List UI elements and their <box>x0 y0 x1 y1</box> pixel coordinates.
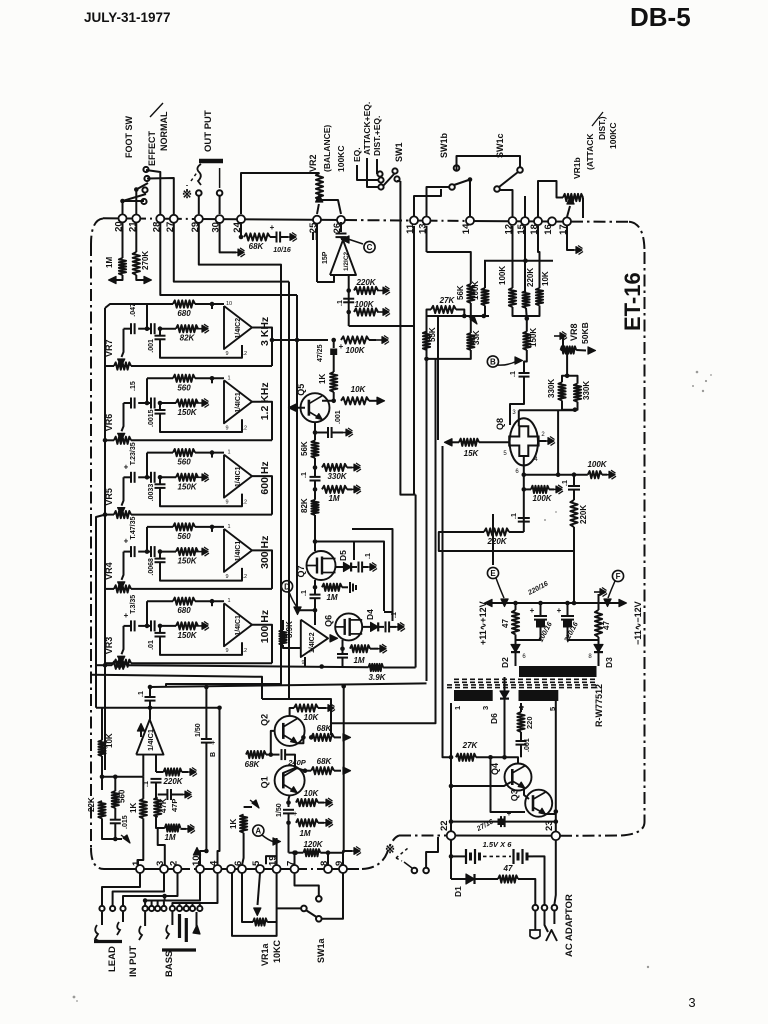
ground (D5) <box>364 566 370 568</box>
svg-text:(BALANCE): (BALANCE) <box>322 125 332 172</box>
top bus line <box>103 217 137 219</box>
pin 5 <box>256 865 264 873</box>
resistor 47 (battery) <box>498 875 518 882</box>
svg-text:.1: .1 <box>391 612 398 618</box>
pin unlabeled <box>227 865 235 873</box>
wire rail to 120K <box>343 686 345 852</box>
svg-text:D1: D1 <box>453 886 463 897</box>
wire pin20 down <box>122 222 124 258</box>
node 1.2 KHz mid1 <box>145 401 150 406</box>
capacitor 1/50 (Q1) <box>283 809 294 811</box>
svg-text:+: + <box>339 342 344 351</box>
wire 15 col down <box>524 226 526 291</box>
svg-text:600 Hz: 600 Hz <box>259 461 271 494</box>
wire 82K down <box>314 515 316 542</box>
wire Q1 emitter <box>289 795 290 807</box>
wire pin25 to op-amp input <box>317 275 334 282</box>
wire 220K v down to rail <box>573 551 575 603</box>
pin 2 <box>174 865 182 873</box>
svg-text:68K: 68K <box>317 757 333 766</box>
svg-text:1M: 1M <box>353 656 364 665</box>
pin 7 <box>291 865 299 873</box>
ground (bank) <box>470 316 477 324</box>
resistor 560 (600 Hz) <box>173 449 195 456</box>
svg-text:12: 12 <box>241 648 247 654</box>
long rail x438 <box>437 316 439 440</box>
svg-text:100K: 100K <box>471 281 480 300</box>
resistor 150K (Q8) <box>526 319 528 332</box>
capacitor 47/25 <box>333 340 335 348</box>
ground (150K 1.2 KHz) <box>196 402 202 404</box>
wire cap to Q8 <box>510 377 524 425</box>
node 47/25 rail <box>270 338 275 343</box>
svg-text:B: B <box>490 358 496 367</box>
ground (rail right) <box>598 594 600 603</box>
junction row y316 <box>427 315 490 317</box>
pin 17 <box>563 217 571 225</box>
ground (220K IC1) <box>184 771 190 773</box>
resistor 100K (bank1) <box>481 288 488 306</box>
long rail2 <box>288 282 290 699</box>
potentiometer VR6 <box>105 439 114 441</box>
pin 10 <box>196 865 204 873</box>
capacitor .1 (Q6) <box>337 653 348 655</box>
node 600 Hz mid2 <box>158 475 163 480</box>
svg-text:+: + <box>293 811 297 818</box>
capacitor .1 (D4) <box>378 626 384 628</box>
power rail +12V/-12V <box>490 602 621 604</box>
wire pin14 up <box>469 180 471 218</box>
svg-text:.1: .1 <box>337 300 344 306</box>
resistor 10K (IC1) <box>101 708 103 741</box>
ground (10K Q2) <box>322 707 328 709</box>
svg-text:LEAD: LEAD <box>107 946 118 972</box>
transistor Q8 (dual-gate FET) <box>510 418 538 465</box>
svg-text:1.5V X 6: 1.5V X 6 <box>483 840 513 849</box>
wire 1.2 KHz output to feedback rail <box>252 402 272 441</box>
diode D2 <box>515 635 517 645</box>
svg-text:15K: 15K <box>464 449 480 458</box>
svg-text:1M: 1M <box>105 257 114 268</box>
op-amp 1/4IC1 (100 Hz) <box>224 603 252 646</box>
capacitor .1 (Q7) <box>310 594 321 596</box>
svg-text:1: 1 <box>227 375 230 381</box>
svg-text:.0033: .0033 <box>148 484 155 502</box>
node 300 Hz mid2 <box>158 549 163 554</box>
svg-text:10/16: 10/16 <box>273 247 291 254</box>
ground (1M Q6) <box>374 648 380 650</box>
capacitor T.23/35 (600 Hz) <box>130 472 132 483</box>
potentiometer VR1b <box>563 194 583 201</box>
node 3 KHz mid2 <box>158 326 163 331</box>
SW1c contacts <box>494 186 500 192</box>
capacitor .015 <box>114 808 116 820</box>
svg-text:2: 2 <box>169 861 180 866</box>
filter stage 1.2 KHz mid wire <box>124 402 132 404</box>
svg-text:.001: .001 <box>524 738 531 752</box>
transistor Q4 <box>505 764 532 791</box>
DC plug arrow <box>546 930 557 941</box>
svg-text:.1: .1 <box>511 513 518 519</box>
resistor 10K (Q5) <box>341 397 369 404</box>
pin 23 <box>552 832 561 841</box>
pin 24 <box>237 215 245 223</box>
VR7 wiper arrow <box>122 329 124 357</box>
wire 600 Hz output to feedback rail <box>252 476 272 514</box>
svg-text:1: 1 <box>453 706 462 710</box>
svg-text:680: 680 <box>177 309 191 318</box>
wire pin15 up <box>524 196 526 217</box>
resistor 1M (IC1) <box>156 817 165 828</box>
svg-text:VR1b: VR1b <box>572 157 582 179</box>
svg-text:1/4IC2: 1/4IC2 <box>309 632 316 653</box>
wire op-amp feedback down <box>348 276 350 326</box>
wire to pin23 <box>555 822 557 833</box>
capacitor 1/50 (B+) <box>201 738 212 740</box>
svg-text:D2: D2 <box>500 657 510 668</box>
svg-text:D6: D6 <box>489 713 499 724</box>
svg-text:1/4IC1: 1/4IC1 <box>235 466 242 487</box>
pin 16 <box>548 217 556 225</box>
svg-text:.15: .15 <box>130 381 137 391</box>
svg-text:1K: 1K <box>318 374 327 384</box>
node Q1 1M <box>288 813 290 852</box>
svg-text:220K: 220K <box>486 537 507 546</box>
resistor 220K (IC2a) <box>354 287 378 294</box>
op-amp 1/4IC1 (1.2 KHz) <box>224 380 252 423</box>
resistor 56K <box>311 440 318 458</box>
wire Q8 source to 330K junction <box>524 410 558 474</box>
pin 3 <box>160 865 168 873</box>
resistor 100K (upper right) <box>558 474 588 476</box>
svg-text:27K: 27K <box>462 741 479 750</box>
node Q8 source <box>522 472 527 477</box>
wire pin25 down <box>316 224 318 282</box>
node 100 Hz mid2 <box>158 624 163 629</box>
svg-text:R-W77512: R-W77512 <box>594 684 604 727</box>
DC jack contacts <box>533 905 539 911</box>
VR5 wiper arrow <box>122 477 124 505</box>
ground (1M IC1) <box>182 828 188 830</box>
svg-text:1/50: 1/50 <box>276 803 283 817</box>
potentiometer VR3 <box>105 662 114 664</box>
SW1b contacts <box>454 165 460 171</box>
resistor 10K (bank) <box>536 288 543 306</box>
svg-text:Q2: Q2 <box>260 714 270 726</box>
resistor 1M (Q5) <box>322 486 347 493</box>
enclosure border left edge <box>90 244 92 848</box>
wire Q8 source down <box>523 456 525 532</box>
battery dashed link <box>483 855 511 857</box>
wire Q2 collector 10K <box>290 708 294 716</box>
pin 20 <box>119 214 127 222</box>
svg-text:1: 1 <box>227 450 230 456</box>
resistor 680 (100 Hz) <box>173 598 195 605</box>
svg-text:AC ADAPTOR: AC ADAPTOR <box>564 894 575 957</box>
wire 270K to arrow <box>136 275 146 280</box>
resistor 47 (E side) <box>512 610 519 635</box>
svg-text:1/4IC1: 1/4IC1 <box>235 541 242 562</box>
svg-text:T.3/35: T.3/35 <box>130 595 137 614</box>
wire pin21 down <box>135 222 137 252</box>
node 330K bottom <box>562 401 578 410</box>
resistor 68K (pin24) <box>244 233 270 240</box>
svg-text:680: 680 <box>177 606 191 615</box>
SW1 lever <box>383 173 395 186</box>
wire to Q4 <box>505 757 519 763</box>
wire pin9 gnd <box>343 851 352 865</box>
svg-text:23: 23 <box>544 820 555 831</box>
wire 68K to cap <box>270 236 276 238</box>
svg-text:1/50: 1/50 <box>195 723 202 737</box>
pin 14 <box>466 217 474 225</box>
wire clip chain upper <box>352 529 393 612</box>
node Q7 source <box>313 585 318 590</box>
ground (82K 3 KHz) <box>196 328 202 330</box>
enclosure border top bus left corner <box>91 219 103 245</box>
wire VR2 bottom to pin26 <box>320 200 342 214</box>
pin 13 <box>423 217 431 225</box>
resistor 1K (IC1) <box>142 777 144 799</box>
foot switch contacts <box>143 167 148 172</box>
long rail1 <box>166 271 281 687</box>
capacitor 27/16 <box>500 816 502 827</box>
resistor 150K (100 Hz) <box>176 622 198 629</box>
ground (100K source) <box>550 488 556 490</box>
resistor 680 (3 KHz) <box>173 300 195 307</box>
filter stage 3 KHz top wire <box>147 303 173 305</box>
wire D5 to D4 clip chain <box>354 542 384 612</box>
Q5 base arrow <box>288 407 305 409</box>
capacitor 15P (pin25) <box>312 232 314 240</box>
svg-text:47K: 47K <box>159 798 168 813</box>
svg-text:47/25: 47/25 <box>317 344 324 362</box>
capacitor input2 (1.2 KHz) <box>150 398 152 409</box>
capacitor .1 (Q5) <box>310 476 321 478</box>
mono plug arrow <box>193 925 200 934</box>
pin 8 <box>324 865 332 873</box>
svg-text:D: D <box>284 582 290 591</box>
svg-text:1M: 1M <box>326 593 337 602</box>
ground (pin17) <box>570 249 576 251</box>
capacitor .1 (IC1 fb) <box>151 778 162 780</box>
resistor 270K (pin21) <box>133 252 140 275</box>
diode D1 <box>466 874 475 884</box>
svg-text:10K: 10K <box>304 713 320 722</box>
ground (pin9) <box>348 850 354 852</box>
svg-text:1/4IC1: 1/4IC1 <box>146 729 155 751</box>
svg-text:+: + <box>124 537 129 546</box>
node feedback-100K <box>346 310 351 315</box>
capacitor .0068 (300 Hz) <box>159 552 161 559</box>
resistor 330K right (Q8) <box>567 376 577 384</box>
foot switch wiring <box>123 201 145 214</box>
resistor 100K (Q8 source) <box>531 486 549 493</box>
svg-text:ET-16: ET-16 <box>620 272 645 331</box>
test point D <box>281 581 292 592</box>
bottom bus step <box>362 836 399 870</box>
node 27K right <box>502 755 507 760</box>
svg-text:9: 9 <box>225 351 228 357</box>
svg-text:.047: .047 <box>130 303 137 317</box>
transistor Q6 (FET) <box>335 613 362 640</box>
svg-text:Q5: Q5 <box>296 384 306 396</box>
wire pin24 down <box>240 222 242 237</box>
DC jack tip cup <box>534 911 536 931</box>
label effect-normal slash <box>150 103 163 117</box>
wire Q7 drain up <box>314 542 316 552</box>
transistor Q7 (FET) <box>307 551 336 580</box>
enclosure border bottom-left corner <box>91 848 104 869</box>
SW1 wire down through bus <box>399 181 401 244</box>
wire Q2 base <box>271 731 275 755</box>
resistor 82K (3 KHz) <box>176 325 198 332</box>
svg-text:10K: 10K <box>351 385 367 394</box>
wire pin1 to LEAD <box>102 873 140 906</box>
battery switch contacts <box>412 868 418 874</box>
potentiometer VR2 <box>316 173 323 200</box>
wire pin12 to SW1c <box>500 190 513 217</box>
svg-text:ATTACK+EQ.: ATTACK+EQ. <box>362 102 372 155</box>
svg-text:56K: 56K <box>300 441 309 456</box>
jack contact feeds <box>151 901 153 907</box>
svg-text:120K: 120K <box>303 840 323 849</box>
node 120K <box>293 850 298 855</box>
wire Q1 collector <box>297 768 305 771</box>
node 600 Hz mid1 <box>145 475 150 480</box>
potentiometer VR5 <box>105 514 114 516</box>
svg-text:12: 12 <box>241 574 247 580</box>
svg-text:10KC: 10KC <box>272 939 282 963</box>
svg-text:3: 3 <box>481 706 490 710</box>
node mixer bottom <box>319 664 324 669</box>
svg-text:NORMAL: NORMAL <box>159 111 169 151</box>
svg-text:D5: D5 <box>338 550 348 561</box>
transistor Q3 <box>525 790 552 817</box>
pin 1 <box>136 865 144 873</box>
svg-text:82K: 82K <box>300 498 309 513</box>
diode D6 <box>504 677 506 691</box>
wire pin28 to rail3 <box>160 222 297 295</box>
resistor 1M (Q7) <box>322 584 342 591</box>
svg-text:33K: 33K <box>472 330 481 345</box>
wire 3 KHz output to feedback rail <box>252 328 272 367</box>
wire to pin11 column <box>349 226 414 326</box>
ground (150K 600 Hz) <box>196 476 202 478</box>
svg-text:T.47/35: T.47/35 <box>130 517 137 540</box>
svg-text:1M: 1M <box>164 833 175 842</box>
wire 120K right <box>320 852 343 854</box>
wire A to pin19 <box>276 838 278 865</box>
svg-text:220K: 220K <box>162 777 183 786</box>
wire SW1 rail down <box>400 244 414 495</box>
wire Q5 emitter down <box>314 422 316 440</box>
resistor 47 (F side) <box>595 610 602 637</box>
svg-text:220: 220 <box>525 716 534 729</box>
resistor 150K (300 Hz) <box>176 548 198 555</box>
resistor 560 (300 Hz) <box>173 523 195 530</box>
svg-text:12: 12 <box>241 500 247 506</box>
node Q7 top <box>313 539 318 544</box>
wire pin10 to INPUT <box>145 873 200 906</box>
svg-text:.001: .001 <box>148 339 155 353</box>
wire pin7 up to 120K row <box>295 853 296 865</box>
pin 15 <box>521 217 529 225</box>
svg-text:150K: 150K <box>529 328 538 347</box>
svg-text:100K: 100K <box>354 300 374 309</box>
svg-text:Q6: Q6 <box>324 615 334 627</box>
wire 3.9K to rail <box>383 667 416 669</box>
resistor 68K (Q1) <box>311 767 334 774</box>
svg-text:1/2IC2: 1/2IC2 <box>343 251 350 271</box>
ground (VR8) <box>554 335 560 337</box>
svg-text:100K: 100K <box>587 460 607 469</box>
wire pin4 to BASS <box>172 873 217 906</box>
pin 26 <box>337 216 345 224</box>
potentiometer VR1a <box>253 918 267 925</box>
capacitor .0015 (1.2 KHz) <box>159 403 161 410</box>
resistor 68K (Q2) <box>311 734 334 741</box>
wire to pin22 <box>450 822 452 832</box>
node 1.2 KHz top <box>210 376 215 381</box>
node 100 Hz top <box>210 599 215 604</box>
svg-text:56K: 56K <box>456 285 465 300</box>
wire jack middle <box>544 883 546 905</box>
resistor 1M (Q1) <box>296 819 318 826</box>
svg-text:150K: 150K <box>177 631 197 640</box>
wire VR1b right down to bus <box>582 198 584 219</box>
resistor 100K (bank2) <box>509 288 516 307</box>
pin 27 <box>170 215 178 223</box>
filter stage 100 Hz mid wire <box>124 625 132 627</box>
ground (100K IC2a) <box>377 311 383 313</box>
test point C <box>364 241 375 252</box>
svg-text:Q7: Q7 <box>296 565 306 577</box>
capacitor 240P <box>281 749 283 760</box>
wire 100 Hz lower <box>160 637 242 655</box>
capacitor .1 (220K v) <box>573 475 575 486</box>
op-amp U-IC2a 1/2 IC2 <box>330 240 356 275</box>
ground (.001 Q5) <box>340 432 346 434</box>
filter stage 3 KHz left wire <box>146 304 148 329</box>
svg-text:10K: 10K <box>304 789 320 798</box>
op-amp 1/4 IC1 (input) <box>136 720 163 755</box>
wire 47K to pin3 <box>158 828 165 865</box>
filter stage 1.2 KHz top wire <box>147 377 173 379</box>
output jack tip wire pin30 <box>219 196 221 214</box>
battery cells right <box>512 849 514 864</box>
node SW1b-pin14 <box>468 177 473 182</box>
svg-text:VR1a: VR1a <box>260 942 270 966</box>
SW1 contact wires <box>357 165 378 180</box>
resistor 120K <box>303 849 320 856</box>
wire Q4-Q3 darlington <box>524 788 529 799</box>
resistor 560 (1.2 KHz) <box>173 375 195 382</box>
wire battery to jack <box>527 855 533 857</box>
svg-text:100KC: 100KC <box>608 123 618 149</box>
resistor 56K (bank) <box>467 284 474 303</box>
svg-text:B: B <box>210 752 217 757</box>
svg-text:EFFECT: EFFECT <box>147 130 157 166</box>
long rail x435 <box>331 359 436 723</box>
pin 19 <box>273 865 281 873</box>
svg-text:+: + <box>507 809 512 818</box>
node mixer-left rail <box>103 663 108 668</box>
svg-text:+: + <box>124 462 129 471</box>
filter stage 1.2 KHz left wire <box>146 378 148 403</box>
wire IC1 inputs <box>102 776 143 778</box>
node 300 Hz top <box>210 525 215 530</box>
